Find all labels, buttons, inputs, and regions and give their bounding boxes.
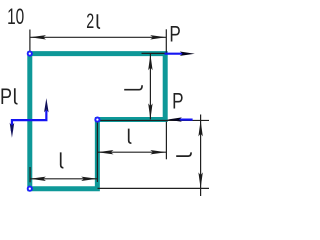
svg-text:P: P: [169, 23, 180, 48]
svg-text:2: 2: [86, 9, 94, 32]
svg-text:P: P: [0, 85, 12, 109]
svg-text:P: P: [172, 90, 183, 115]
svg-text:10: 10: [7, 6, 24, 30]
